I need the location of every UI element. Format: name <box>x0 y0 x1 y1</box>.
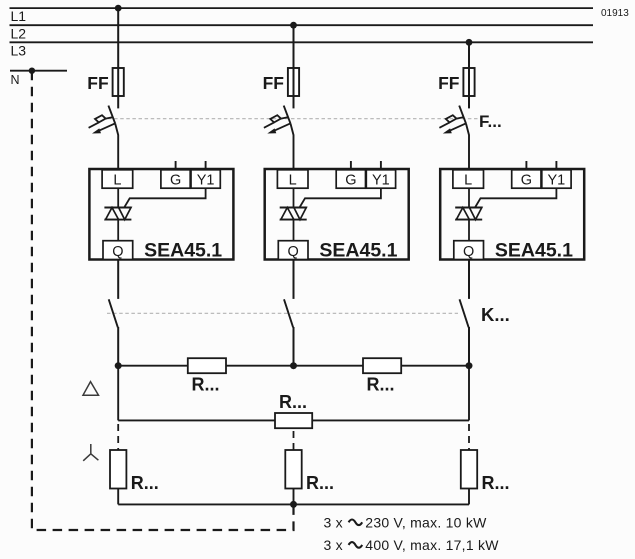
contactor contact K... (branch 1) <box>109 299 119 365</box>
svg-text:R...: R... <box>367 375 395 395</box>
svg-text:Q: Q <box>463 244 474 260</box>
svg-text:SEA45.1: SEA45.1 <box>319 240 397 262</box>
wire L terminal to triac (U1) <box>117 188 119 208</box>
svg-text:G: G <box>521 172 532 188</box>
svg-text:400 V, max. 17,1 kW: 400 V, max. 17,1 kW <box>365 537 499 553</box>
pin stub above G (U3) <box>525 161 527 169</box>
wire star resistor to star point (branch 1) <box>117 489 119 505</box>
pin stub above Y1 (U3) <box>555 161 557 169</box>
svg-text:Y1: Y1 <box>197 172 215 188</box>
svg-text:R...: R... <box>279 392 307 412</box>
fuse FF (branch 2) <box>288 68 299 96</box>
svg-text:F...: F... <box>479 112 502 131</box>
wire delta left drop <box>117 366 119 421</box>
wire L terminal to triac (U2) <box>293 188 295 208</box>
resistor R... (star branch 3) <box>461 450 477 489</box>
circuit breaker F... (branch 1) <box>89 106 119 170</box>
resistor R... (delta L2-L3) <box>363 358 401 373</box>
svg-text:R...: R... <box>306 473 334 493</box>
resistor R... (star branch 1) <box>110 450 126 489</box>
svg-text:Q: Q <box>288 244 299 260</box>
svg-text:K...: K... <box>481 304 510 325</box>
wire Q output to contactor K (branch 3) <box>468 260 470 299</box>
triac (U2) <box>280 208 307 220</box>
terminal Y1 (U1) <box>191 170 220 189</box>
svg-text:L2: L2 <box>11 25 27 41</box>
svg-text:Y1: Y1 <box>548 172 566 188</box>
circuit breaker F... (branch 3) <box>439 106 469 170</box>
svg-text:SEA45.1: SEA45.1 <box>495 240 573 262</box>
svg-text:230 V, max. 10 kW: 230 V, max. 10 kW <box>365 515 487 531</box>
svg-text:N: N <box>11 73 20 87</box>
pin stub above Y1 (U1) <box>205 161 207 169</box>
wire rail to fuse FF (branch 3) <box>468 42 470 69</box>
wire L1 rail <box>10 7 594 9</box>
resistor R... (delta L1-L2) <box>188 358 226 373</box>
svg-text:G: G <box>170 172 181 188</box>
node bus junction branch 3 <box>466 362 473 369</box>
wire fuse to breaker (branch 1) <box>117 96 119 108</box>
wire dashed neutral return N to star point <box>32 71 294 530</box>
wire L3 rail <box>10 41 594 43</box>
wire triac to Q terminal (U3) <box>468 220 470 241</box>
wire dashed stub branch 2 (delta/star alternative) <box>293 431 295 450</box>
terminal L (U3) <box>453 170 484 189</box>
svg-text:R...: R... <box>192 375 220 395</box>
contactor contact K... (branch 3) <box>460 299 470 365</box>
terminal Y1 (U3) <box>542 170 571 189</box>
svg-text:L: L <box>289 172 297 188</box>
node L3 junction <box>466 39 473 46</box>
star (wye) symbol <box>83 444 98 461</box>
svg-text:L3: L3 <box>11 42 27 58</box>
wire triac to Q terminal (U1) <box>117 220 119 241</box>
wire Q output to contactor K (branch 2) <box>293 260 295 299</box>
controller U3 SEA45.1 outline <box>440 169 584 260</box>
wire dashed stub branch 1 (delta/star alternative) <box>117 424 119 450</box>
svg-text:3 x: 3 x <box>324 537 343 553</box>
terminal Q (U3) <box>454 241 484 260</box>
wire fuse to breaker (branch 2) <box>293 96 295 108</box>
svg-text:SEA45.1: SEA45.1 <box>144 240 222 262</box>
svg-text:G: G <box>345 172 356 188</box>
contactor contact K... (branch 2) <box>284 299 294 365</box>
resistor R... (star branch 2) <box>285 450 301 489</box>
delta symbol <box>83 382 99 396</box>
mechanical linkage (dashed) of breakers F <box>108 118 479 120</box>
pin stub above G (U1) <box>175 161 177 169</box>
wire delta right drop <box>468 366 470 421</box>
node bus junction branch 2 <box>290 362 297 369</box>
triac (U1) <box>104 208 131 220</box>
terminal Q (U2) <box>278 241 308 260</box>
node star point <box>290 501 297 508</box>
pin stub above G (U2) <box>350 161 352 169</box>
controller U2 SEA45.1 outline <box>265 169 409 260</box>
controller U1 SEA45.1 outline <box>89 169 233 260</box>
pin stub above Y1 (U2) <box>380 161 382 169</box>
wire rail to fuse FF (branch 2) <box>293 25 295 69</box>
svg-text:R...: R... <box>482 473 510 493</box>
circuit breaker F... (branch 2) <box>264 106 294 170</box>
wire gate from Y1 to triac (U3) <box>475 188 556 207</box>
svg-text:R...: R... <box>131 473 159 493</box>
wire L terminal to triac (U3) <box>468 188 470 208</box>
terminal G (U2) <box>336 170 365 189</box>
svg-text:Y1: Y1 <box>372 172 390 188</box>
svg-text:L: L <box>464 172 472 188</box>
svg-text:01913: 01913 <box>601 8 629 19</box>
fuse FF (branch 3) <box>463 68 474 96</box>
wire star resistor to star point (branch 3) <box>468 489 470 505</box>
terminal G (U1) <box>161 170 190 189</box>
wire gate from Y1 to triac (U1) <box>124 188 205 207</box>
svg-text:L: L <box>113 172 121 188</box>
wire fuse to breaker (branch 3) <box>468 96 470 108</box>
terminal Q (U1) <box>103 241 133 260</box>
resistor R... (delta L1-L3) <box>275 413 312 428</box>
wire N rail <box>10 70 67 72</box>
wire dashed stub branch 3 (delta/star alternative) <box>468 424 470 450</box>
wire triac to Q terminal (U2) <box>293 220 295 241</box>
node bus junction branch 1 <box>115 362 122 369</box>
svg-text:FF: FF <box>263 73 285 93</box>
svg-text:Q: Q <box>112 244 123 260</box>
wire star point line <box>118 503 469 505</box>
svg-text:L1: L1 <box>11 8 27 24</box>
mechanical linkage (dashed) of contactors K <box>107 312 458 314</box>
fuse FF (branch 1) <box>113 68 124 96</box>
wire delta top bus <box>118 365 469 367</box>
svg-text:FF: FF <box>438 73 460 93</box>
node L1 junction <box>115 5 122 12</box>
wire rail to fuse FF (branch 1) <box>117 8 119 69</box>
wire star resistor to star point (branch 2) <box>293 489 295 505</box>
annotation 3x230V rating <box>324 515 488 531</box>
wire gate from Y1 to triac (U2) <box>300 188 381 207</box>
svg-text:3 x: 3 x <box>324 515 343 531</box>
terminal L (U2) <box>277 170 308 189</box>
node L2 junction <box>290 22 297 29</box>
annotation 3x400V rating <box>324 537 500 553</box>
triac (U3) <box>455 208 482 220</box>
svg-text:FF: FF <box>87 73 109 93</box>
terminal G (U3) <box>512 170 541 189</box>
wire L2 rail <box>10 24 594 26</box>
terminal L (U1) <box>102 170 133 189</box>
node N junction <box>29 68 35 74</box>
terminal Y1 (U2) <box>366 170 395 189</box>
wire Q output to contactor K (branch 1) <box>117 260 119 299</box>
wire delta bottom <box>118 419 469 421</box>
